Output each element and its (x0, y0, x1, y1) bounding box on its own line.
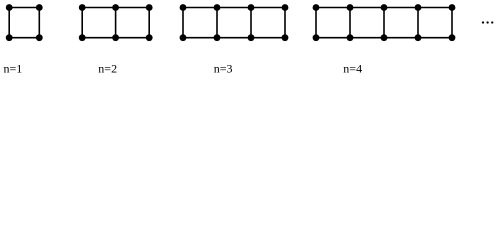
svg-text:n=4: n=4 (343, 62, 362, 76)
node top 5 (449, 4, 456, 11)
node bottom 3 (381, 34, 388, 41)
node bottom 5 (449, 34, 456, 41)
wire bottom edge (183,37.7)-(285,37.7) (183, 37, 285, 39)
wire top edge (316,7.5)-(452,7.5) (316, 7, 452, 9)
node top 4 (415, 4, 422, 11)
wire vertical x=384 (383, 8, 385, 38)
wire bottom edge (316,37.7)-(452,37.7) (316, 37, 452, 39)
node top-right (36, 4, 43, 11)
wire bottom edge (9.2,37.7)-(39.3,37.7) (9, 37, 39, 39)
node top 2 (214, 4, 221, 11)
node bottom 2 (347, 34, 354, 41)
wire bottom edge (82.2,37.7)-(149.2,37.7) (82, 37, 149, 39)
svg-text:n=3: n=3 (214, 62, 233, 76)
figure n=3 : 3-square ladder graph (180, 4, 289, 41)
node top 3 (248, 4, 255, 11)
svg-text:n=1: n=1 (4, 62, 23, 76)
wire vertical x=350 (349, 8, 351, 38)
node top 1 (79, 4, 86, 11)
node bottom 2 (214, 34, 221, 41)
node bottom 3 (248, 34, 255, 41)
wire vertical x=183 (182, 8, 184, 38)
node bottom 3 (146, 34, 153, 41)
wire vertical x=316 (315, 8, 317, 38)
node bottom-left (6, 34, 13, 41)
node bottom 1 (79, 34, 86, 41)
figure n=1 : 1-square ladder graph (6, 4, 43, 41)
node bottom 2 (112, 34, 119, 41)
node bottom-right (36, 34, 43, 41)
node bottom 1 (180, 34, 187, 41)
node bottom 1 (313, 34, 320, 41)
node top 3 (146, 4, 153, 11)
wire left edge x=9.2 (8, 8, 10, 38)
wire vertical x=418 (417, 8, 419, 38)
wire vertical x=452 (451, 8, 453, 38)
node bottom 4 (415, 34, 422, 41)
figure n=2 : 2-square ladder graph (79, 4, 153, 41)
wire top edge (82.2,7.5)-(149.2,7.5) (82, 7, 149, 9)
wire top edge (183,7.5)-(285,7.5) (183, 7, 285, 9)
node top 1 (313, 4, 320, 11)
ellipsis continuation dots (482, 21, 494, 23)
node top 4 (282, 4, 289, 11)
node top 1 (180, 4, 187, 11)
wire vertical x=82.2 (81, 8, 83, 38)
svg-text:n=2: n=2 (98, 62, 117, 76)
wire right edge x=39.3 (38, 8, 40, 38)
node bottom 4 (282, 34, 289, 41)
wire top edge (9.2,7.5)-(39.3,7.5) (9, 7, 39, 9)
wire vertical x=115.6 (115, 8, 117, 38)
wire vertical x=149.2 (148, 8, 150, 38)
node top 2 (112, 4, 119, 11)
figure n=4 : 4-square ladder graph (313, 4, 456, 41)
node top-left (6, 4, 13, 11)
node top 2 (347, 4, 354, 11)
node top 3 (381, 4, 388, 11)
wire vertical x=251 (250, 8, 252, 38)
wire vertical x=217 (216, 8, 218, 38)
wire vertical x=285 (284, 8, 286, 38)
